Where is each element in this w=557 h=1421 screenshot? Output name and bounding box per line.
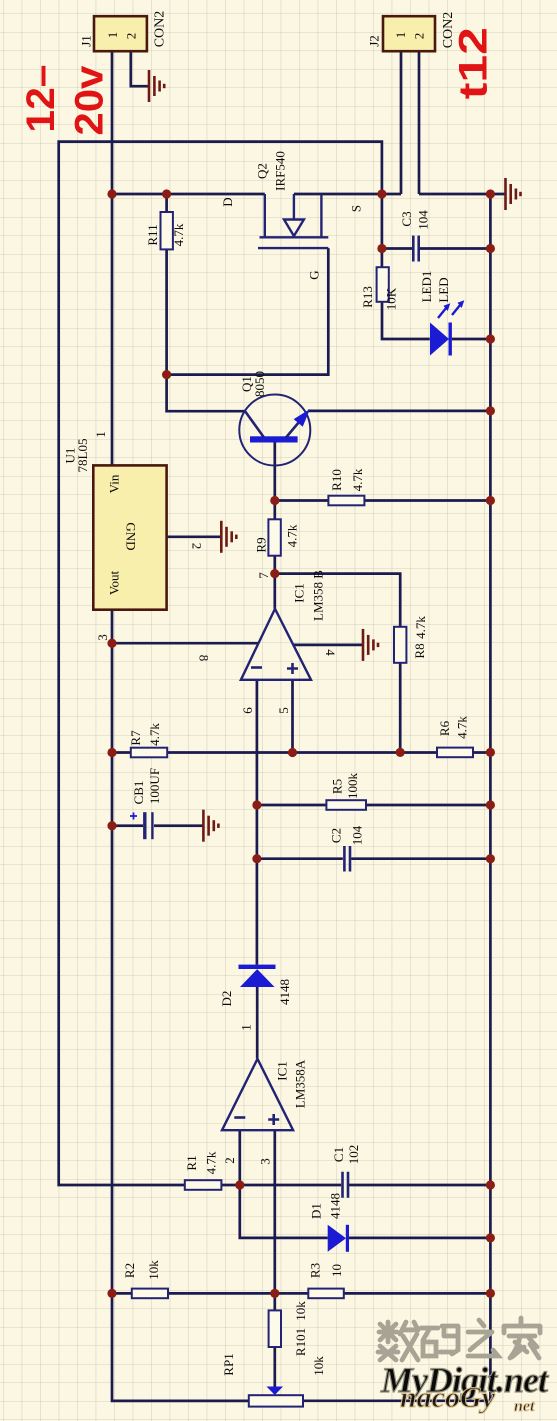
- wire IC1B pin6 down to D2: [256, 680, 259, 965]
- resistor R101: [269, 1301, 308, 1356]
- junction C3 right: [486, 244, 495, 253]
- transistor Q1 8050: [239, 371, 310, 466]
- junction R5 right: [486, 800, 495, 809]
- svg-text:10: 10: [329, 1264, 344, 1277]
- svg-text:R2: R2: [122, 1263, 137, 1278]
- connector J1: [79, 11, 168, 51]
- svg-text:LED1: LED1: [419, 271, 434, 303]
- wire R11 top lead: [165, 194, 168, 212]
- junction R11 top: [162, 189, 171, 198]
- wire IC1B pin5 down to row752: [291, 680, 294, 753]
- wire row 858.7 C2: [257, 857, 343, 860]
- resistor R7: [128, 723, 167, 758]
- svg-text:R101: R101: [293, 1328, 308, 1356]
- op-amp IC1 LM358A: [222, 1024, 308, 1165]
- wire J2 pin1: [400, 51, 403, 194]
- svg-text:1: 1: [239, 1024, 254, 1031]
- diode D1 4148: [309, 1193, 350, 1252]
- svg-text:R1: R1: [184, 1155, 199, 1170]
- junction row752 right: [486, 748, 495, 757]
- wire rail B: U1 Vout down to RP1 left: [112, 610, 249, 1401]
- junction LED right: [486, 334, 495, 343]
- junction emitter rail: [486, 406, 495, 415]
- wire R101 top lead: [273, 1293, 276, 1310]
- resistor R9: [254, 519, 300, 555]
- wire left rail with top link to S-node: [59, 142, 382, 1185]
- svg-text:R9: R9: [254, 537, 269, 552]
- svg-text:104: 104: [350, 825, 365, 845]
- svg-text:104: 104: [416, 210, 431, 230]
- junction C3 left: [377, 244, 386, 253]
- svg-text:Vin: Vin: [107, 474, 122, 493]
- svg-text:IRF540: IRF540: [273, 151, 288, 191]
- svg-text:8: 8: [197, 655, 212, 662]
- wire Q1 emitter to right rail: [308, 410, 491, 413]
- svg-text:R5: R5: [330, 779, 345, 794]
- resistor R3: [308, 1263, 345, 1298]
- wire R8 bottom to row752: [399, 663, 402, 753]
- svg-text:5: 5: [276, 707, 291, 714]
- svg-text:RP1: RP1: [221, 1353, 236, 1375]
- potentiometer RP1: [221, 1353, 326, 1406]
- svg-text:78L05: 78L05: [75, 439, 90, 473]
- svg-text:R10: R10: [329, 469, 344, 491]
- svg-text:C3: C3: [399, 211, 414, 226]
- wire row 805 R5: [257, 804, 327, 807]
- junction C1 right: [486, 1180, 495, 1189]
- regulator U1 78L05: [63, 431, 205, 641]
- wire S-node down through C3 node to R13 top: [381, 194, 384, 267]
- wire main rail y194 S section: [294, 193, 401, 196]
- resistor R2: [122, 1260, 168, 1298]
- transistor Q2 IRF540: [220, 151, 364, 280]
- diode D2 4148: [219, 965, 292, 1007]
- svg-text:10k: 10k: [311, 1356, 326, 1376]
- ground (J1 pin2): [149, 70, 164, 102]
- svg-text:D1: D1: [309, 1203, 324, 1219]
- svg-text:4148: 4148: [277, 979, 292, 1005]
- resistor R5: [326, 773, 366, 810]
- svg-text:20v: 20v: [67, 65, 111, 136]
- wire R9 bottom through pin7 node to IC1B output apex: [273, 556, 276, 609]
- svg-text:2: 2: [412, 33, 427, 40]
- svg-text:4.7k: 4.7k: [204, 1151, 219, 1174]
- svg-text:2: 2: [222, 1157, 237, 1164]
- junction R3 left: [270, 1289, 279, 1298]
- junction C2 right: [486, 854, 495, 863]
- svg-text:R3: R3: [308, 1263, 323, 1278]
- ground (top right rail): [506, 178, 521, 210]
- svg-text:R13: R13: [360, 286, 375, 308]
- svg-text:LM358 B: LM358 B: [311, 570, 326, 621]
- watermark overlay orange: [400, 1381, 535, 1415]
- junction pin5 row752: [288, 748, 297, 757]
- svg-text:4.7k: 4.7k: [171, 223, 186, 246]
- svg-text:4.7k: 4.7k: [147, 723, 162, 746]
- wire J1 pin1 down to U1 Vin: [111, 51, 114, 465]
- LED1: [419, 271, 464, 356]
- ground (IC1B pin4): [363, 629, 378, 661]
- svg-text:3: 3: [95, 634, 110, 641]
- svg-text:1: 1: [93, 431, 108, 438]
- svg-text:7: 7: [256, 572, 271, 579]
- connector J2: [367, 12, 457, 51]
- ground (CB1): [203, 810, 218, 842]
- svg-text:nacoGy: nacoGy: [400, 1381, 496, 1414]
- svg-text:t12: t12: [451, 27, 495, 99]
- svg-text:IC1: IC1: [292, 583, 307, 603]
- svg-text:S: S: [349, 205, 364, 212]
- svg-text:6: 6: [240, 707, 255, 714]
- svg-text:C2: C2: [329, 828, 344, 843]
- svg-text:LED: LED: [436, 277, 451, 302]
- resistor R6: [437, 716, 473, 758]
- svg-text:4148: 4148: [328, 1193, 343, 1219]
- junction R8 row752: [396, 748, 405, 757]
- svg-text:D: D: [220, 197, 235, 206]
- wire gate lead of Q2 to R11 node: [167, 248, 329, 375]
- resistor R8: [394, 616, 428, 663]
- wire IC1A pin2 down and right to D1 anode: [240, 1130, 328, 1238]
- resistor R10: [328, 468, 365, 505]
- svg-text:4: 4: [323, 649, 338, 656]
- svg-text:CON2: CON2: [153, 11, 168, 48]
- svg-text:J1: J1: [79, 35, 94, 47]
- junction rail/ground top right: [486, 189, 495, 198]
- resistor R11: [145, 212, 186, 249]
- capacitor C1: [331, 1145, 361, 1198]
- svg-text:D2: D2: [219, 991, 234, 1007]
- svg-text:10k: 10k: [146, 1260, 161, 1280]
- wire CB1 left lead: [112, 824, 143, 827]
- svg-text:4.7k: 4.7k: [413, 616, 428, 639]
- wire R10 right to rail: [364, 499, 490, 502]
- wire C3 right lead: [420, 247, 491, 250]
- svg-text:100UF: 100UF: [147, 768, 162, 804]
- junction D1 right: [486, 1233, 495, 1242]
- svg-text:102: 102: [346, 1145, 361, 1165]
- wire main rail y194 left of Q2: [112, 193, 265, 196]
- junction CB1 left: [107, 821, 116, 830]
- svg-text:net: net: [514, 1398, 535, 1415]
- junction pin7 node: [270, 569, 279, 578]
- wire node to R10 left: [275, 499, 329, 502]
- wire R13 bottom to LED anode: [382, 302, 430, 339]
- wire J1 pin2 to ground: [131, 51, 148, 86]
- svg-text:2: 2: [124, 33, 139, 40]
- wire D2 bottom to IC1A output apex: [256, 987, 259, 1059]
- junction pin2 node: [235, 1180, 244, 1189]
- junction Q1 base node: [270, 496, 279, 505]
- resistor R13: [360, 267, 399, 310]
- wire row 752: [112, 751, 131, 754]
- wire J2 pin2: [418, 51, 421, 194]
- svg-text:R6: R6: [437, 720, 452, 736]
- svg-text:G: G: [307, 270, 322, 279]
- svg-text:2: 2: [190, 543, 205, 550]
- wire R11 bottom node down to Q1 collector: [167, 249, 245, 411]
- svg-text:CB1: CB1: [131, 781, 146, 805]
- wire Q1 base down to node: [273, 442, 276, 519]
- junction J1/rail: [107, 189, 116, 198]
- wire U1 GND stem: [167, 535, 221, 538]
- svg-text:4.7k: 4.7k: [455, 716, 470, 739]
- svg-text:IC1: IC1: [275, 1061, 290, 1081]
- wire main rail y194 right section to ground: [419, 193, 505, 196]
- wire U1 Vout node to IC1B pin8: [112, 642, 258, 645]
- junction C2 left: [252, 854, 261, 863]
- wire IC1A pin3 down to row1293: [273, 1130, 276, 1293]
- capacitor CB1 (electrolytic): [130, 768, 162, 839]
- svg-text:R8: R8: [412, 643, 427, 658]
- wire C3 left lead: [382, 247, 412, 250]
- wire pin7 node right to R8 top: [275, 574, 400, 627]
- svg-text:R11: R11: [145, 224, 160, 245]
- capacitor C2: [329, 825, 365, 871]
- wire R1 row right portion with C1: [221, 1184, 341, 1187]
- wire LED cathode to right rail: [452, 338, 490, 341]
- svg-text:3: 3: [258, 1158, 273, 1165]
- svg-text:GND: GND: [124, 522, 139, 550]
- junction row752 left: [107, 748, 116, 757]
- svg-text:100k: 100k: [345, 773, 360, 800]
- junction R11 bottom: [162, 370, 171, 379]
- svg-text:C1: C1: [331, 1147, 346, 1162]
- svg-text:Q2: Q2: [255, 163, 270, 179]
- svg-text:8050: 8050: [252, 371, 267, 397]
- svg-text:12–: 12–: [19, 65, 63, 133]
- wire D1 cathode to right rail: [349, 1237, 491, 1240]
- svg-text:4.7k: 4.7k: [350, 468, 365, 491]
- ground (U1 GND): [221, 521, 236, 553]
- capacitor C3: [399, 210, 431, 262]
- junction R2 left: [107, 1289, 116, 1298]
- svg-text:10k: 10k: [293, 1301, 308, 1321]
- svg-text:R7: R7: [128, 730, 143, 746]
- watermark 数码之家 (drawn as outlined strokes): [378, 1318, 540, 1360]
- svg-text:4.7k: 4.7k: [285, 524, 300, 547]
- wire R101 bottom to RP1 wiper arrow: [273, 1347, 276, 1387]
- svg-text:LM358A: LM358A: [293, 1059, 308, 1108]
- wire IC1B pin4 stem to ground: [293, 644, 362, 647]
- wire right rail down to RP1 right: [303, 194, 490, 1401]
- net label 12-20v (red): [19, 65, 112, 136]
- svg-text:1: 1: [105, 32, 120, 39]
- svg-text:1: 1: [393, 32, 408, 39]
- svg-text:10K: 10K: [384, 287, 399, 310]
- junction R10 right: [486, 496, 495, 505]
- resistor R1: [184, 1151, 221, 1190]
- wire row 1293 segments: [112, 1292, 132, 1295]
- junction R5 left: [252, 800, 261, 809]
- junction row1293 right: [486, 1289, 495, 1298]
- op-amp IC1 LM358 B: [197, 570, 339, 714]
- wire CB1 right lead to ground: [154, 824, 203, 827]
- junction S node: [377, 189, 386, 198]
- svg-text:Vout: Vout: [107, 570, 122, 595]
- svg-text:J2: J2: [367, 35, 382, 47]
- junction U1 Vout node: [107, 639, 116, 648]
